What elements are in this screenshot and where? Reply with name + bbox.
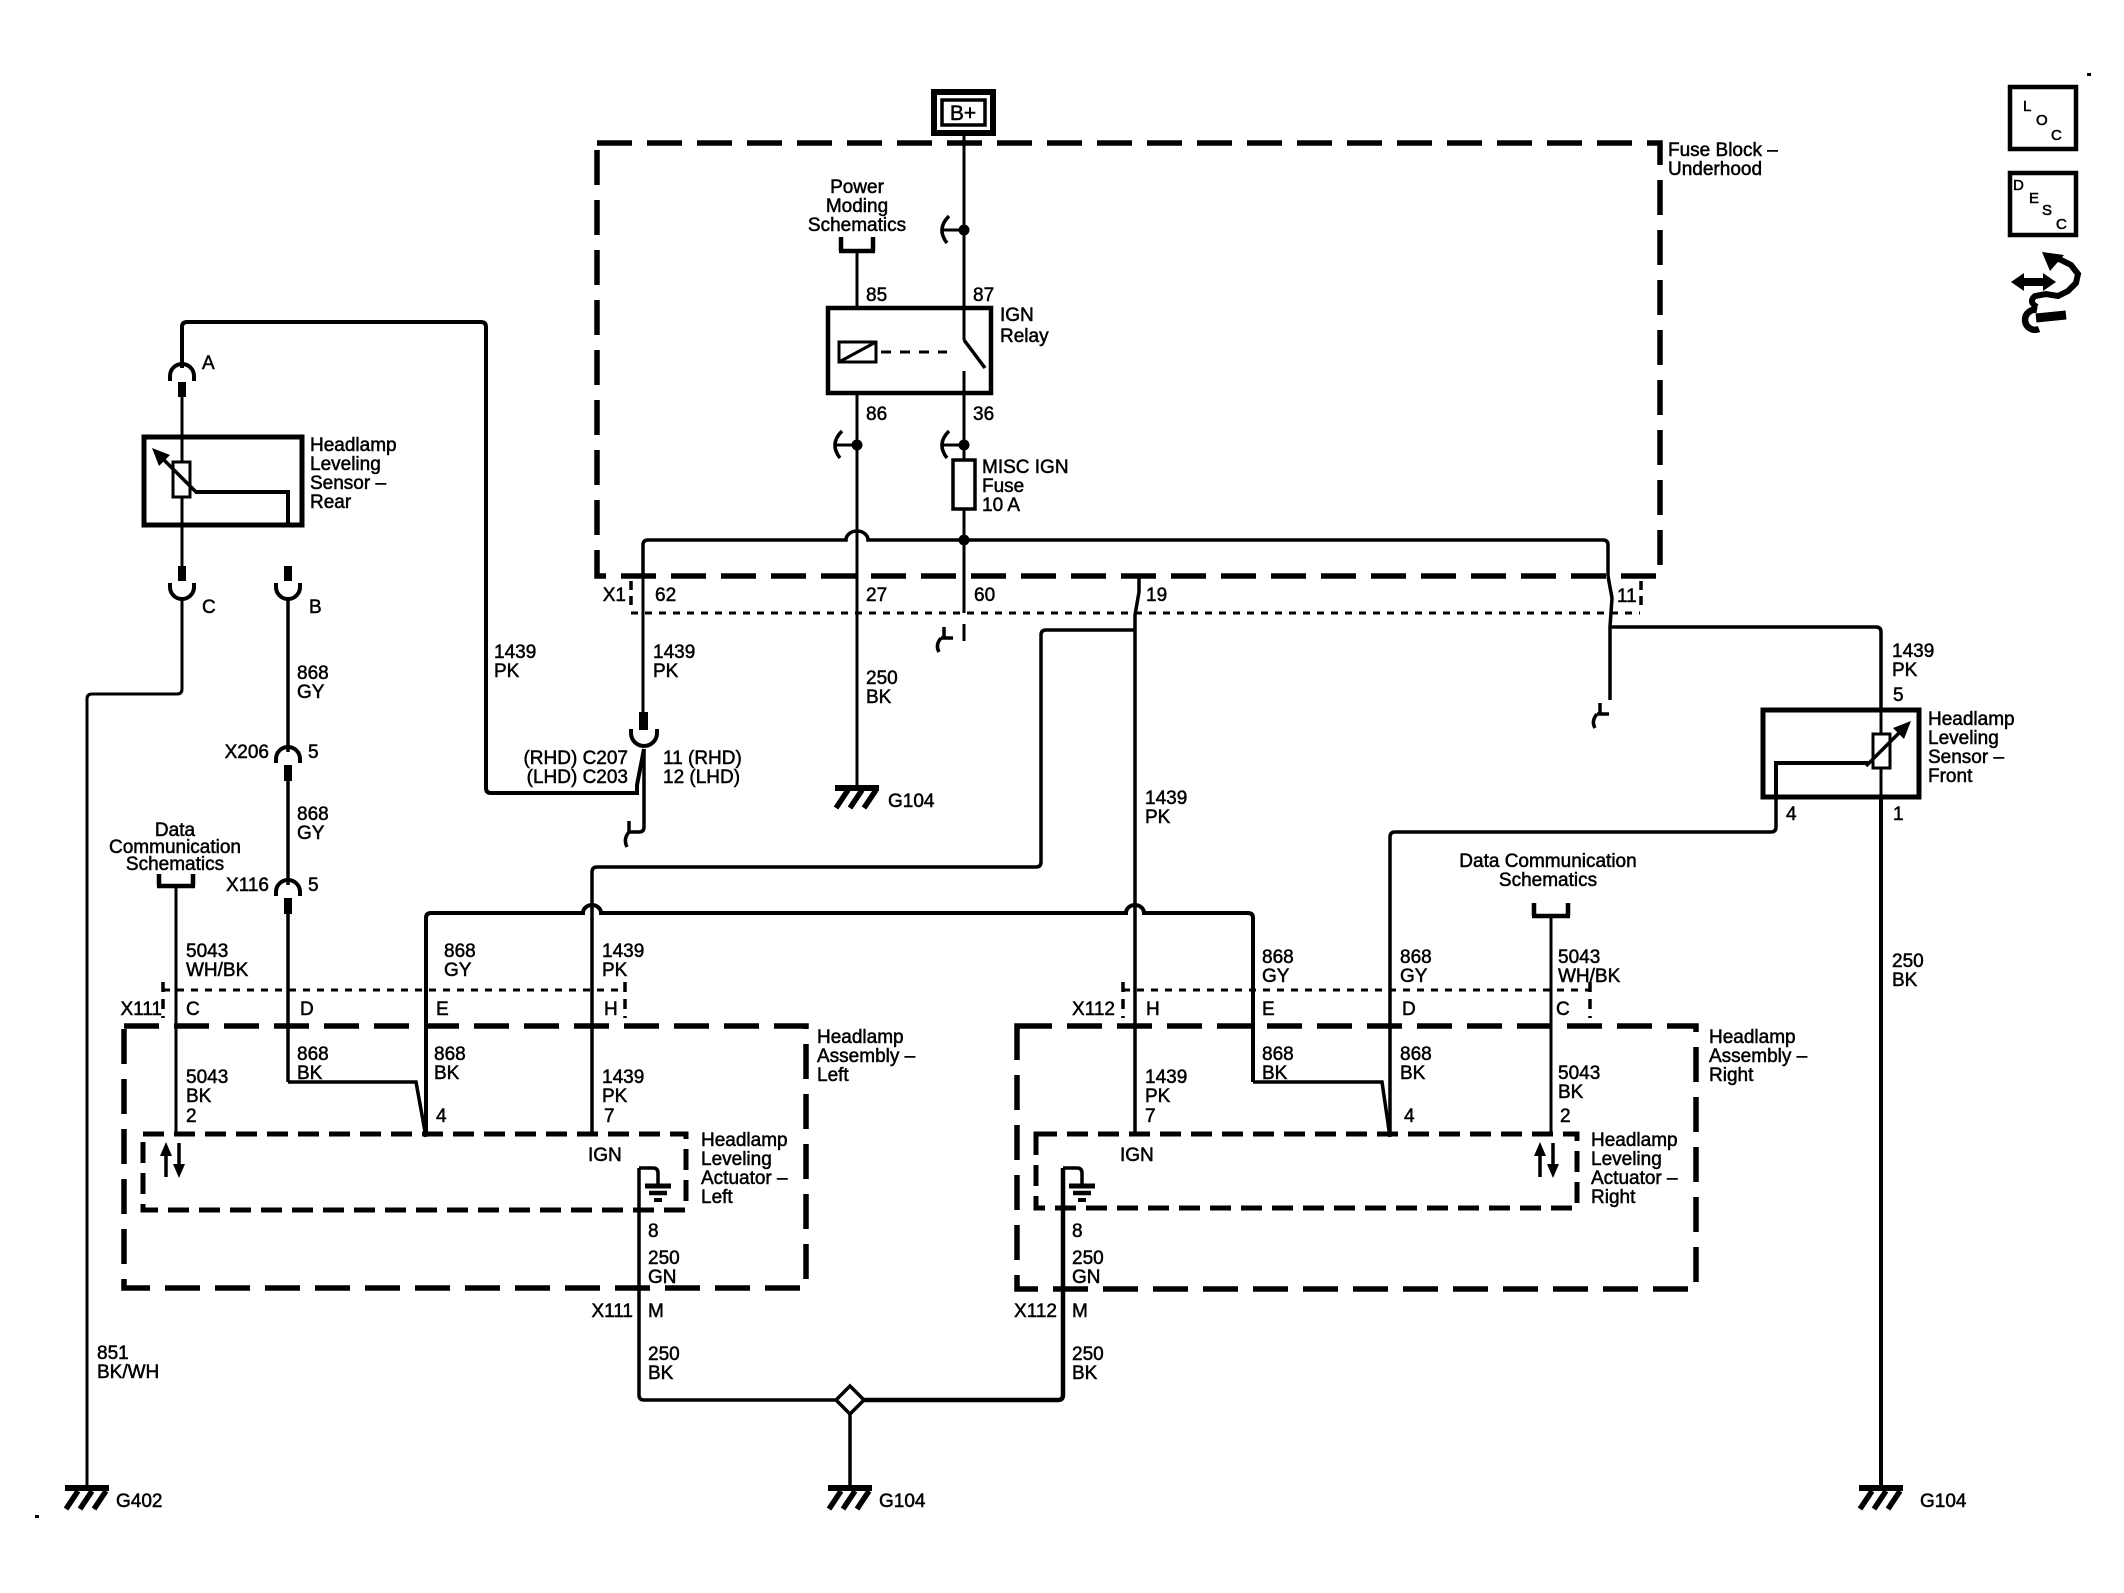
svg-text:E: E — [1262, 999, 1275, 1020]
bus 868 GY between X111-E and X112-E — [426, 905, 1253, 1134]
relay coil-switch dashed link — [881, 351, 947, 354]
wire fuse to internal bus — [963, 509, 966, 540]
svg-text:X112: X112 — [1014, 1301, 1057, 1322]
sensor front potentiometer — [1873, 734, 1890, 768]
svg-text:11: 11 — [1617, 586, 1637, 607]
svg-text:Schematics: Schematics — [126, 854, 224, 875]
svg-text:G104: G104 — [1920, 1491, 1967, 1512]
svg-text:MISC IGN: MISC IGN — [982, 457, 1069, 478]
svg-text:PK: PK — [653, 661, 679, 682]
svg-text:4: 4 — [1786, 804, 1797, 825]
wire front sensor pin 1 250 BK to ground — [1879, 797, 1883, 1486]
connector X111 left tick — [161, 982, 165, 1018]
svg-text:Schematics: Schematics — [808, 215, 906, 236]
wire 1439 PK loop to rear sensor pin A — [182, 322, 644, 793]
wire 250 GN label left — [648, 1248, 680, 1288]
svg-text:E: E — [436, 999, 449, 1020]
wire 250 BK label right sensor — [1892, 951, 1924, 991]
sensor Headlamp Leveling Sensor Rear box — [144, 437, 302, 525]
headlamp leveling actuator right label — [1591, 1130, 1678, 1208]
wire 868 BK label right D — [1400, 1044, 1432, 1084]
svg-text:12 (LHD): 12 (LHD) — [663, 767, 740, 788]
svg-text:4: 4 — [436, 1106, 447, 1127]
data communication schematics reference right — [1459, 851, 1636, 891]
headlamp assembly left dashed box — [124, 1026, 806, 1288]
wire 5043 WH/BK label right — [1558, 947, 1621, 987]
svg-text:7: 7 — [604, 1106, 615, 1127]
svg-text:11 (RHD): 11 (RHD) — [663, 748, 742, 769]
wire 250 GN label right — [1072, 1248, 1104, 1288]
svg-text:27: 27 — [866, 585, 887, 606]
svg-text:Headlamp: Headlamp — [1591, 1130, 1678, 1151]
connector C207/C203 socket arc — [631, 729, 657, 746]
svg-text:B+: B+ — [950, 102, 976, 125]
svg-text:IGN: IGN — [1000, 305, 1034, 326]
connector X111 dotted pin row — [163, 989, 625, 992]
connector X1 dotted pin row — [631, 612, 1640, 615]
svg-text:5: 5 — [1893, 685, 1904, 706]
svg-text:8: 8 — [1072, 1221, 1083, 1242]
svg-text:GY: GY — [1262, 966, 1290, 987]
svg-text:250: 250 — [648, 1344, 680, 1365]
svg-text:60: 60 — [974, 585, 995, 606]
page speck top right — [2087, 73, 2091, 76]
sensor front wiper arrow — [1866, 721, 1911, 766]
connector X1 left tick — [629, 581, 633, 605]
wire 5043 BK label right — [1558, 1063, 1600, 1103]
svg-text:1: 1 — [1893, 804, 1904, 825]
icon arrows and wrench — [2011, 252, 2078, 330]
wire 868 GY label left E column — [444, 941, 476, 981]
svg-text:2: 2 — [1560, 1106, 1571, 1127]
svg-text:B: B — [309, 597, 322, 618]
svg-text:5043: 5043 — [1558, 1063, 1600, 1084]
svg-text:L: L — [2023, 98, 2031, 115]
connector X112 dotted pin row — [1123, 989, 1590, 992]
svg-text:5043: 5043 — [186, 941, 228, 962]
wire 5043 WH/BK label — [186, 941, 249, 981]
actuator right motor arrows — [1534, 1142, 1559, 1178]
wire X111-D jog to actuator pin 4 — [288, 1082, 426, 1137]
svg-text:5: 5 — [308, 742, 319, 763]
svg-text:Moding: Moding — [826, 196, 888, 217]
svg-text:Data Communication: Data Communication — [1459, 851, 1636, 872]
svg-text:Power: Power — [830, 177, 885, 198]
connector pin B socket arc — [276, 583, 300, 599]
svg-text:Headlamp: Headlamp — [310, 435, 397, 456]
svg-text:BK: BK — [1558, 1082, 1584, 1103]
svg-text:G402: G402 — [116, 1491, 162, 1512]
relay coil — [839, 342, 876, 362]
svg-text:250: 250 — [1072, 1248, 1104, 1269]
svg-text:D: D — [1402, 999, 1416, 1020]
actuator left internal ground — [639, 1168, 671, 1200]
fuse block tap junction on 36 wire — [941, 431, 970, 458]
sensor front name label — [1928, 709, 2015, 787]
wire 1439 PK label at pin 62 — [653, 642, 695, 682]
wire 851 BK/WH label — [97, 1343, 159, 1383]
svg-text:Headlamp: Headlamp — [701, 1130, 788, 1151]
svg-text:BK: BK — [1072, 1363, 1098, 1384]
svg-text:M: M — [648, 1301, 664, 1322]
wire 868 GY label mid — [297, 804, 329, 844]
svg-text:Headlamp: Headlamp — [1709, 1027, 1796, 1048]
battery feed B+ — [934, 92, 993, 133]
svg-text:C: C — [186, 999, 200, 1020]
svg-text:868: 868 — [1400, 947, 1432, 968]
connector pin B terminal bar — [284, 566, 292, 581]
svg-text:GY: GY — [1400, 966, 1428, 987]
wire front sensor pin 4 to X112-D — [1390, 797, 1776, 1134]
svg-text:1439: 1439 — [1145, 788, 1187, 809]
connector half at pin 60 stub — [937, 627, 953, 652]
wire X116 to X111-D — [286, 914, 290, 1082]
svg-text:G104: G104 — [879, 1491, 926, 1512]
svg-text:PK: PK — [602, 1086, 628, 1107]
wire 868 BK label left D — [297, 1044, 329, 1084]
junction fuse output on bus — [959, 535, 970, 546]
connector X1 right tick — [1639, 581, 1643, 605]
svg-text:GY: GY — [297, 823, 325, 844]
svg-text:7: 7 — [1145, 1106, 1156, 1127]
svg-text:M: M — [1072, 1301, 1088, 1322]
svg-text:H: H — [1146, 999, 1160, 1020]
svg-text:868: 868 — [1262, 947, 1294, 968]
connector X116 terminal bar — [284, 898, 292, 914]
svg-text:Fuse: Fuse — [982, 476, 1024, 497]
wire pin 5 through pot — [1880, 712, 1883, 797]
svg-text:1439: 1439 — [1145, 1067, 1187, 1088]
svg-text:Sensor –: Sensor – — [310, 473, 386, 494]
wire 250 BK label (pin 27) — [866, 668, 898, 708]
svg-text:C: C — [1556, 999, 1570, 1020]
svg-text:36: 36 — [973, 404, 994, 425]
svg-text:Fuse Block –: Fuse Block – — [1668, 140, 1778, 161]
svg-text:(RHD) C207: (RHD) C207 — [523, 748, 628, 769]
ground G104 under relay — [835, 788, 935, 812]
svg-text:Leveling: Leveling — [1928, 728, 1999, 749]
svg-text:A: A — [202, 353, 215, 374]
ground G104 center — [828, 1488, 926, 1512]
wire 868 GY label upper — [297, 663, 329, 703]
connector C207/C203 name label — [523, 748, 628, 788]
svg-text:62: 62 — [655, 585, 676, 606]
wire 1439 PK label front sensor — [1892, 641, 1934, 681]
fuse block tap junction at 87 feed — [941, 216, 970, 243]
svg-text:Actuator –: Actuator – — [701, 1168, 788, 1189]
wire X206 to X116 868 GY — [286, 781, 290, 885]
ground G402 — [65, 1488, 162, 1512]
svg-text:H: H — [604, 999, 618, 1020]
svg-text:5043: 5043 — [186, 1067, 228, 1088]
headlamp leveling actuator right dashed box — [1036, 1134, 1577, 1208]
svg-text:5043: 5043 — [1558, 947, 1600, 968]
connector pin C terminal bar — [178, 566, 186, 581]
svg-text:BK: BK — [1892, 970, 1918, 991]
connector X111 right tick — [623, 982, 627, 1018]
wire 1439 PK label left 7 — [602, 1067, 644, 1107]
svg-text:WH/BK: WH/BK — [186, 960, 249, 981]
svg-text:Right: Right — [1709, 1065, 1754, 1086]
svg-text:BK: BK — [186, 1086, 212, 1107]
svg-text:Headlamp: Headlamp — [1928, 709, 2015, 730]
svg-text:X111: X111 — [591, 1301, 633, 1322]
relay switch blade — [964, 308, 985, 393]
svg-text:1439: 1439 — [653, 642, 695, 663]
svg-text:868: 868 — [1400, 1044, 1432, 1065]
svg-text:Right: Right — [1591, 1187, 1636, 1208]
svg-text:Left: Left — [701, 1187, 733, 1208]
svg-text:19: 19 — [1146, 585, 1167, 606]
svg-text:BK: BK — [866, 687, 892, 708]
sensor rear potentiometer — [173, 462, 190, 497]
page speck bottom left — [35, 1515, 39, 1518]
svg-text:5: 5 — [308, 875, 319, 896]
svg-text:Rear: Rear — [310, 492, 352, 513]
svg-text:Leveling: Leveling — [310, 454, 381, 475]
svg-text:GY: GY — [297, 682, 325, 703]
svg-text:D: D — [2013, 177, 2024, 194]
headlamp leveling actuator left dashed box — [143, 1134, 686, 1210]
icon DESC box — [2010, 173, 2076, 235]
svg-text:Sensor –: Sensor – — [1928, 747, 2004, 768]
power moding off-page bracket — [839, 237, 875, 251]
connector X112 left tick — [1121, 982, 1125, 1018]
svg-text:250: 250 — [866, 668, 898, 689]
svg-text:C: C — [2051, 127, 2062, 144]
svg-text:X1: X1 — [603, 585, 626, 606]
svg-text:C: C — [2056, 216, 2067, 233]
svg-text:X112: X112 — [1072, 999, 1115, 1020]
icon LOC box — [2010, 87, 2076, 149]
wire pin 19 branch to left H — [592, 630, 1135, 1134]
svg-text:250: 250 — [1892, 951, 1924, 972]
sensor rear wiper arrow — [152, 448, 197, 493]
svg-text:Leveling: Leveling — [701, 1149, 772, 1170]
svg-text:IGN: IGN — [1120, 1145, 1154, 1166]
svg-text:868: 868 — [297, 663, 329, 684]
sensor rear wiper to pin B path — [195, 492, 288, 525]
svg-text:1439: 1439 — [602, 1067, 644, 1088]
fuse block - underhood label — [1668, 140, 1778, 180]
svg-text:IGN: IGN — [588, 1145, 622, 1166]
connector pin A terminal bar — [178, 382, 186, 397]
svg-text:1439: 1439 — [494, 642, 536, 663]
svg-text:250: 250 — [1072, 1344, 1104, 1365]
sensor front wiper to pin 4 path — [1776, 763, 1868, 797]
svg-text:87: 87 — [973, 285, 994, 306]
connector pin 11/12 label — [663, 748, 742, 788]
wire 868 GY label right D — [1400, 947, 1432, 987]
wire pin B to X206 868 GY — [286, 598, 290, 752]
data comm off-page bracket right — [1532, 903, 1570, 916]
svg-text:Schematics: Schematics — [1499, 870, 1597, 891]
connector half at pin 11 stub — [1593, 703, 1609, 728]
wire pin A into sensor — [181, 397, 184, 462]
wire pot bottom to pin C — [181, 497, 184, 566]
svg-text:2: 2 — [186, 1106, 197, 1127]
svg-text:Assembly –: Assembly – — [1709, 1046, 1808, 1067]
svg-text:868: 868 — [444, 941, 476, 962]
headlamp assembly right dashed box — [1017, 1026, 1696, 1289]
sensor rear name label — [310, 435, 397, 513]
svg-text:868: 868 — [297, 804, 329, 825]
fuse MISC IGN 10A — [953, 460, 975, 509]
svg-text:BK: BK — [434, 1063, 460, 1084]
svg-text:PK: PK — [1892, 660, 1918, 681]
actuator left motor arrows — [160, 1142, 185, 1178]
svg-text:868: 868 — [297, 1044, 329, 1065]
headlamp assembly left label — [817, 1027, 916, 1086]
svg-text:E: E — [2029, 190, 2039, 207]
sensor Headlamp Leveling Sensor Front box — [1763, 710, 1919, 797]
power moding schematics reference label — [808, 177, 906, 236]
svg-text:BK/WH: BK/WH — [97, 1362, 159, 1383]
wire pin C to G402 run — [87, 598, 182, 1486]
svg-text:GN: GN — [1072, 1267, 1101, 1288]
headlamp assembly right label — [1709, 1027, 1808, 1086]
fuse block - underhood dashed box — [597, 143, 1660, 576]
fuse block internal bus to pins 62 and 11 — [643, 531, 1608, 576]
svg-text:4: 4 — [1404, 1106, 1415, 1127]
wire B+ to relay 87 — [963, 133, 966, 308]
svg-text:PK: PK — [602, 960, 628, 981]
wire 1439 PK label right vertical — [1145, 788, 1187, 828]
svg-text:Underhood: Underhood — [1668, 159, 1762, 180]
wire actuator right M 250 GN/BK down — [864, 1168, 1063, 1400]
svg-text:PK: PK — [494, 661, 520, 682]
svg-text:X206: X206 — [225, 742, 269, 763]
relay IGN Relay box — [828, 308, 991, 393]
svg-text:8: 8 — [648, 1221, 659, 1242]
svg-text:868: 868 — [434, 1044, 466, 1065]
connector C207/C203 terminal bar — [639, 712, 648, 730]
connector pin A socket arc — [170, 364, 194, 381]
svg-text:Left: Left — [817, 1065, 849, 1086]
svg-text:GY: GY — [444, 960, 472, 981]
svg-text:1439: 1439 — [602, 941, 644, 962]
wire pin 60 stub — [963, 540, 966, 641]
fuse label — [982, 457, 1069, 516]
wire continuation below C203 with connector half — [629, 749, 644, 832]
wire 868 BK label right E — [1262, 1044, 1294, 1084]
ground G104 right — [1859, 1488, 1967, 1512]
actuator right internal ground — [1063, 1168, 1095, 1200]
svg-text:86: 86 — [866, 404, 887, 425]
wire X1-11 1439 PK down — [1608, 576, 1612, 700]
wire 1439 PK label left H column — [602, 941, 644, 981]
svg-text:D: D — [300, 999, 314, 1020]
wire diamond to ground — [848, 1414, 852, 1486]
wire X1-62 1439 PK down to connector — [642, 576, 645, 712]
svg-text:Relay: Relay — [1000, 326, 1049, 347]
wire pin 11 branch to front sensor pin 5 — [1610, 627, 1881, 712]
svg-text:S: S — [2042, 202, 2052, 219]
connector X206 socket arc — [276, 747, 300, 763]
wire relay 86 to X1-27 and ground — [856, 393, 859, 786]
svg-text:Front: Front — [1928, 766, 1973, 787]
wire 5043 BK label left — [186, 1067, 228, 1107]
wire 5043 WH/BK to X112-C — [1550, 916, 1553, 1134]
svg-text:O: O — [2036, 112, 2048, 129]
wire actuator left M 250 GN/BK down — [639, 1168, 836, 1400]
connector X206 terminal bar — [284, 765, 292, 781]
wire 250 BK label right — [1072, 1344, 1104, 1384]
wire 250 BK label left — [648, 1344, 680, 1384]
data communication schematics reference left — [109, 820, 241, 875]
svg-text:Assembly –: Assembly – — [817, 1046, 916, 1067]
svg-text:Actuator –: Actuator – — [1591, 1168, 1678, 1189]
connector X112 right tick — [1588, 982, 1592, 1018]
svg-text:BK: BK — [648, 1363, 674, 1384]
svg-text:1439: 1439 — [1892, 641, 1934, 662]
wire 5043 WH/BK to X111-C — [175, 886, 178, 1134]
connector X116 socket arc — [276, 880, 300, 896]
wire pin 19 1439 PK exit — [1135, 576, 1139, 1134]
svg-text:X111: X111 — [120, 999, 162, 1020]
svg-text:851: 851 — [97, 1343, 129, 1364]
wire 1439 PK label right 7 — [1145, 1067, 1187, 1107]
svg-text:PK: PK — [1145, 1086, 1171, 1107]
svg-text:Leveling: Leveling — [1591, 1149, 1662, 1170]
svg-text:C: C — [202, 597, 216, 618]
headlamp leveling actuator left label — [701, 1130, 788, 1208]
svg-text:PK: PK — [1145, 807, 1171, 828]
svg-text:G104: G104 — [888, 791, 935, 812]
wire 1439 PK label on loop — [494, 642, 536, 682]
svg-text:10 A: 10 A — [982, 495, 1020, 516]
svg-text:X116: X116 — [226, 875, 269, 896]
wire relay 36 to fuse — [963, 393, 966, 460]
wire 868 BK label left E — [434, 1044, 466, 1084]
svg-text:Headlamp: Headlamp — [817, 1027, 904, 1048]
svg-text:GN: GN — [648, 1267, 677, 1288]
svg-text:(LHD) C203: (LHD) C203 — [527, 767, 628, 788]
svg-text:868: 868 — [1262, 1044, 1294, 1065]
svg-text:85: 85 — [866, 285, 887, 306]
svg-text:BK: BK — [1400, 1063, 1426, 1084]
relay name label — [1000, 305, 1049, 347]
fuse block tap junction on 86 wire — [834, 431, 863, 458]
splice diamond junction — [836, 1386, 864, 1414]
svg-text:250: 250 — [648, 1248, 680, 1269]
data comm off-page bracket left — [157, 874, 195, 886]
wire X112-E jog to actuator pin 4 — [1253, 1082, 1390, 1137]
connector pin C socket arc — [170, 583, 194, 599]
wire bracket to relay 85 — [856, 251, 859, 308]
wire 868 GY label right E — [1262, 947, 1294, 987]
